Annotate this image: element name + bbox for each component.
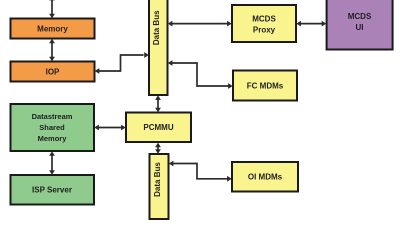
- wire: Data Bus (upper) to PCMMU double arrow: [155, 95, 161, 112]
- wire: Data Bus (upper) to FC MDMs elbow double arrow: [168, 60, 233, 89]
- wire: Data Bus (upper) to MCDS Proxy double arrow: [168, 21, 232, 27]
- box IOP: [11, 62, 95, 82]
- box FC MDMs: [233, 71, 297, 101]
- svg-text:Memory: Memory: [38, 134, 68, 143]
- svg-text:PCMMU: PCMMU: [143, 123, 173, 132]
- box PCMMU: [126, 113, 191, 143]
- wire: MCDS Proxy to MCDS UI double arrow: [296, 21, 326, 27]
- svg-text:Proxy: Proxy: [253, 26, 276, 35]
- box Memory: [11, 19, 95, 39]
- wire: Memory to IOP double arrow: [49, 39, 55, 62]
- svg-text:FC MDMs: FC MDMs: [247, 82, 284, 91]
- box MCDS UI: [327, 0, 393, 50]
- svg-text:ISP Server: ISP Server: [32, 186, 72, 195]
- box Datastream Shared Memory: [11, 104, 95, 151]
- svg-text:Memory: Memory: [37, 25, 68, 34]
- box Data Bus (lower): [150, 154, 169, 219]
- svg-text:UI: UI: [356, 23, 364, 32]
- wire: PCMMU to Data Bus (lower) double arrow: [155, 143, 161, 154]
- box MCDS Proxy: [232, 5, 296, 42]
- wire: CPU link into Memory (cut off at top): [49, 0, 55, 18]
- svg-text:Datastream: Datastream: [32, 112, 73, 121]
- svg-text:Shared: Shared: [39, 123, 65, 132]
- svg-text:Data Bus: Data Bus: [153, 162, 162, 197]
- wire: Datastream Shared Memory to ISP Server double arrow: [49, 151, 55, 175]
- svg-text:MCDS: MCDS: [252, 15, 276, 24]
- svg-text:MCDS: MCDS: [348, 12, 372, 21]
- box OI MDMs: [232, 162, 298, 192]
- svg-text:Data Bus: Data Bus: [152, 10, 161, 45]
- wire: IOP to Data Bus elbow double arrow: [95, 52, 149, 74]
- wire: Data Bus (lower) to OI MDMs elbow double arrow: [169, 161, 232, 182]
- svg-text:OI MDMs: OI MDMs: [248, 173, 283, 182]
- wire: Datastream Shared Memory to PCMMU double arrow: [94, 125, 125, 131]
- box ISP Server: [11, 175, 95, 205]
- svg-text:IOP: IOP: [46, 68, 60, 77]
- box Data Bus (upper): [149, 0, 168, 95]
